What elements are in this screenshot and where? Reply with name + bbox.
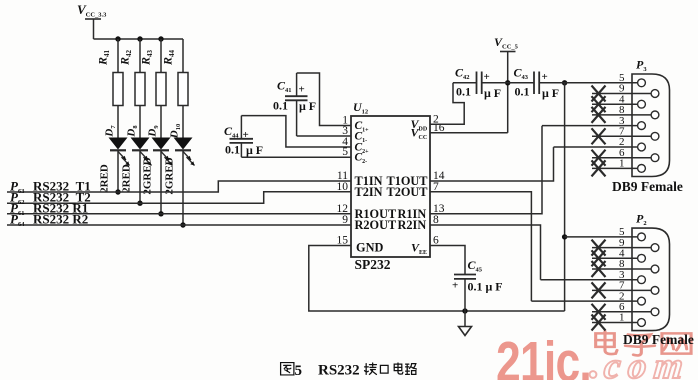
svg-text:1: 1	[619, 158, 625, 170]
svg-text:+: +	[484, 71, 490, 83]
svg-text:+: +	[542, 71, 548, 83]
svg-text:2GRED: 2GRED	[142, 157, 154, 194]
svg-text:R2IN: R2IN	[398, 218, 427, 232]
svg-text:15: 15	[337, 235, 349, 247]
svg-text:DB9 Female: DB9 Female	[612, 179, 683, 194]
svg-text:P3: P3	[636, 58, 647, 74]
svg-text:VCC_3.3: VCC_3.3	[77, 2, 107, 19]
svg-text:2RED: 2RED	[121, 164, 133, 193]
svg-text:VEE: VEE	[411, 241, 427, 257]
svg-text:5: 5	[295, 363, 303, 379]
svg-text:+: +	[243, 129, 249, 141]
svg-text:7: 7	[433, 181, 439, 193]
svg-text:C45: C45	[468, 258, 483, 274]
svg-text:+: +	[299, 84, 305, 96]
svg-text:0.1 μ F: 0.1 μ F	[468, 280, 503, 294]
svg-text:R43: R43	[139, 49, 155, 66]
svg-text:5: 5	[342, 146, 348, 158]
svg-text:μ F: μ F	[484, 86, 501, 100]
svg-text:12: 12	[337, 203, 349, 215]
svg-text:D7: D7	[104, 125, 118, 138]
svg-text:0.1: 0.1	[225, 143, 240, 157]
svg-text:0.1: 0.1	[273, 99, 288, 113]
svg-text:C42: C42	[455, 66, 470, 82]
svg-text:R42: R42	[118, 49, 134, 66]
svg-text:D10: D10	[169, 124, 183, 139]
svg-text:SP232: SP232	[355, 257, 391, 272]
svg-text:R41: R41	[96, 49, 112, 66]
svg-text:C44: C44	[224, 124, 239, 140]
svg-text:μ F: μ F	[299, 99, 316, 113]
svg-text:DB9 Female: DB9 Female	[623, 332, 694, 347]
svg-text:com: com	[602, 346, 692, 380]
svg-text:R2OUT: R2OUT	[355, 218, 397, 232]
svg-text:D9: D9	[147, 125, 161, 138]
svg-text:D8: D8	[126, 125, 140, 138]
svg-text:13: 13	[433, 203, 445, 215]
svg-text:RS232: RS232	[318, 363, 360, 379]
svg-text:0.1: 0.1	[456, 85, 471, 99]
svg-text:C43: C43	[514, 66, 529, 82]
svg-text:μ F: μ F	[542, 86, 559, 100]
svg-text:+: +	[452, 280, 458, 292]
svg-text:P2: P2	[636, 212, 647, 228]
svg-text:2RED: 2RED	[99, 164, 111, 193]
svg-text:6: 6	[433, 235, 439, 247]
svg-text:GND: GND	[356, 241, 383, 255]
svg-text:C41: C41	[277, 79, 292, 95]
svg-text:0.1: 0.1	[515, 85, 530, 99]
svg-text:VCC_5: VCC_5	[494, 35, 519, 51]
svg-text:T2IN: T2IN	[355, 185, 383, 199]
svg-text:9: 9	[342, 214, 348, 226]
svg-text:R44: R44	[161, 49, 177, 66]
svg-text:8: 8	[433, 214, 439, 226]
svg-text:μ F: μ F	[246, 143, 263, 157]
svg-text:T2OUT: T2OUT	[387, 185, 429, 199]
svg-text:U12: U12	[353, 100, 368, 116]
svg-text:1: 1	[619, 312, 625, 324]
svg-text:RS232 R2: RS232 R2	[33, 212, 88, 227]
svg-text:10: 10	[337, 181, 349, 193]
svg-text:2GRED: 2GRED	[164, 157, 176, 194]
